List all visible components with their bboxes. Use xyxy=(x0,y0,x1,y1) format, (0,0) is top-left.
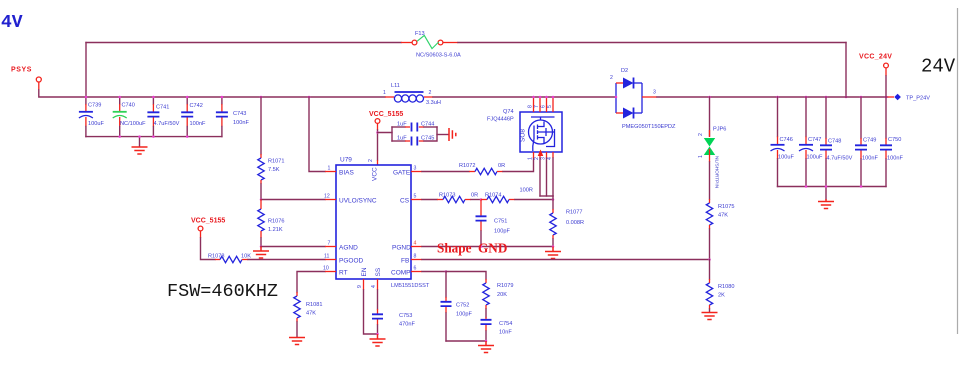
Q74 body diode arrow xyxy=(538,150,544,157)
svg-text:100nF: 100nF xyxy=(887,156,903,162)
ground C753 xyxy=(370,334,386,346)
net VCC_24V port circle xyxy=(884,63,889,68)
svg-text:1: 1 xyxy=(528,157,534,160)
wire R1080 to ground xyxy=(709,309,711,312)
svg-text:6: 6 xyxy=(541,105,547,108)
junction C740 bottom xyxy=(118,135,121,138)
transistor Q74 body xyxy=(520,112,563,152)
pin 12 stub xyxy=(325,199,336,201)
resistor R1074 xyxy=(481,196,515,202)
wire output rail xyxy=(657,96,888,98)
Q74 drain stub d xyxy=(552,97,554,112)
wire UVLO node to pin12 xyxy=(261,199,325,201)
diode D2 xyxy=(616,78,642,119)
Q74 source stub a xyxy=(539,152,541,158)
svg-text:2: 2 xyxy=(698,133,704,136)
pin 7 stub xyxy=(325,246,336,248)
svg-text:C753: C753 xyxy=(399,313,412,319)
wire R1071 feed xyxy=(260,97,262,154)
wire C754 to bus xyxy=(485,331,487,341)
svg-text:7: 7 xyxy=(328,241,331,247)
svg-text:COMP: COMP xyxy=(391,270,411,277)
capacitor C745 xyxy=(405,137,424,146)
wire C753 to ground node xyxy=(377,325,379,334)
svg-text:C739: C739 xyxy=(88,103,101,109)
svg-text:C751: C751 xyxy=(494,219,507,225)
junction D2 anode xyxy=(615,96,618,99)
pin 6 stub xyxy=(411,271,422,273)
svg-text:C752: C752 xyxy=(456,303,469,309)
wire R1076 to AGND node xyxy=(260,238,262,247)
capacitor C742 xyxy=(181,97,193,137)
svg-text:BIAS: BIAS xyxy=(339,170,354,177)
testpoint TP_P24V xyxy=(894,94,901,101)
wire top rail right corner drop xyxy=(845,43,847,98)
bottom pin stub SS xyxy=(377,279,379,290)
capacitor C749 xyxy=(855,97,867,187)
junction PGND ground node xyxy=(552,245,555,248)
svg-text:AGND: AGND xyxy=(339,245,358,252)
wire R1079 to C754 xyxy=(485,309,487,317)
svg-text:NC/100uF: NC/100uF xyxy=(120,121,146,127)
wire input rail left xyxy=(86,96,385,98)
wire TP stub xyxy=(888,96,895,98)
junction C742 top xyxy=(186,96,189,99)
wire RT to R1081 xyxy=(297,272,325,293)
svg-text:L11: L11 xyxy=(391,83,400,89)
wire R1078 to pin11 xyxy=(248,259,325,261)
junction out bus c xyxy=(860,185,863,188)
svg-text:PGND: PGND xyxy=(392,245,411,252)
pin 1 stub xyxy=(325,171,336,173)
resistor R1080 xyxy=(706,279,712,309)
wire VCC_5155 stub (vcc) xyxy=(377,124,379,131)
junction rail-riser xyxy=(85,96,88,99)
fuse F13 xyxy=(412,35,443,48)
svg-text:4.7uF/50V: 4.7uF/50V xyxy=(154,121,180,127)
svg-text:R1081: R1081 xyxy=(306,302,322,308)
svg-text:470nF: 470nF xyxy=(399,322,415,328)
capacitor C751 xyxy=(476,200,487,247)
wire bypass loop top row xyxy=(392,126,405,128)
junction R1071 tap xyxy=(260,96,263,99)
svg-text:4V: 4V xyxy=(1,13,23,33)
wire comp bottom bus xyxy=(446,340,486,342)
svg-text:1: 1 xyxy=(383,90,386,96)
resistor R1075 xyxy=(706,199,712,229)
svg-text:2: 2 xyxy=(534,157,540,160)
svg-text:8: 8 xyxy=(414,254,417,260)
svg-text:FSW=460KHZ: FSW=460KHZ xyxy=(167,281,278,302)
svg-text:F13: F13 xyxy=(415,31,425,37)
svg-text:TP_P24V: TP_P24V xyxy=(906,96,930,102)
svg-text:SO8: SO8 xyxy=(520,129,527,142)
wire R1074 to sense node xyxy=(515,199,553,201)
junction Q74 drain d xyxy=(552,96,555,99)
wire left riser to top rail xyxy=(85,43,87,98)
svg-text:PSYS: PSYS xyxy=(11,67,32,74)
svg-text:UVLO/SYNC: UVLO/SYNC xyxy=(339,198,377,205)
wire R1073 to CS node xyxy=(471,199,481,201)
capacitor C743 xyxy=(216,97,228,137)
svg-text:C741: C741 xyxy=(156,105,169,111)
resistor R1072 xyxy=(469,168,503,174)
wire fuse left stub xyxy=(401,42,412,44)
svg-text:C750: C750 xyxy=(888,137,901,143)
svg-text:C748: C748 xyxy=(828,139,841,145)
wire AGND node to pin7 xyxy=(261,246,325,248)
svg-text:C749: C749 xyxy=(863,138,876,144)
wire bypass loop right vertical xyxy=(424,127,437,141)
capacitor C753 xyxy=(372,309,383,325)
wire FB node to R1080 xyxy=(709,260,711,280)
svg-text:C747: C747 xyxy=(808,137,821,143)
svg-text:24V: 24V xyxy=(921,56,956,78)
ground AGND xyxy=(253,247,269,259)
wire VCC_24V down to rail xyxy=(885,76,887,97)
wire COMP pin to node xyxy=(422,271,446,273)
svg-text:C740: C740 xyxy=(122,103,135,109)
svg-text:R1074: R1074 xyxy=(485,193,501,199)
resistor R1071 xyxy=(258,154,264,184)
wire input cap ground bus xyxy=(86,136,222,138)
pin 4 stub xyxy=(411,246,422,248)
ground comp network xyxy=(478,341,494,353)
sheet border right edge xyxy=(957,8,959,334)
svg-text:4: 4 xyxy=(371,285,377,288)
resistor R1079 xyxy=(483,279,489,309)
svg-text:NC/S0603-S-6.0A: NC/S0603-S-6.0A xyxy=(416,53,461,59)
svg-text:C754: C754 xyxy=(499,321,512,327)
svg-text:100uF: 100uF xyxy=(88,121,104,127)
wire Q74 source b down xyxy=(546,158,548,196)
junction source-R1074 node xyxy=(552,198,555,201)
svg-text:7: 7 xyxy=(534,105,540,108)
svg-text:PJP6: PJP6 xyxy=(713,127,726,133)
wire branch to bypass loop xyxy=(378,132,393,134)
svg-text:C746: C746 xyxy=(780,137,793,143)
wire output gnd drop xyxy=(825,187,827,200)
svg-text:CS: CS xyxy=(400,198,410,205)
svg-text:0.008R: 0.008R xyxy=(566,220,584,226)
capacitor C752 xyxy=(441,272,452,342)
ground sideways CT44/C745 xyxy=(449,128,456,141)
svg-text:Shape GND: Shape GND xyxy=(437,241,507,256)
svg-text:FB: FB xyxy=(401,258,409,265)
svg-text:PGOOD: PGOOD xyxy=(339,258,364,265)
svg-text:47K: 47K xyxy=(306,311,316,317)
junction BIAS tap xyxy=(308,96,311,99)
svg-text:4: 4 xyxy=(547,157,553,160)
wire loop to side ground xyxy=(437,134,448,136)
resistor R1078 xyxy=(215,256,248,262)
junction gnd drop xyxy=(138,135,141,138)
wire Q74 source c down xyxy=(552,158,554,196)
svg-text:R1077: R1077 xyxy=(566,210,582,216)
ground input bus xyxy=(132,147,148,154)
wire bypass loop top right xyxy=(424,126,437,128)
wire EN pin down xyxy=(364,290,378,334)
wire R1077 to PGND node xyxy=(552,239,554,247)
svg-text:100uF: 100uF xyxy=(807,155,823,161)
wire VCC_24V stub xyxy=(885,68,887,76)
wire SS pin to C753 xyxy=(377,290,379,309)
svg-text:LM51551DSST: LM51551DSST xyxy=(391,283,430,289)
wire VCC_5155 stub (pgood) xyxy=(200,231,202,238)
Q74 drain stub c xyxy=(546,97,548,112)
svg-text:R1073: R1073 xyxy=(439,193,455,199)
capacitor C747 xyxy=(799,97,813,187)
svg-text:8: 8 xyxy=(528,105,534,108)
junction FB node xyxy=(708,258,711,261)
svg-text:100nF: 100nF xyxy=(190,121,206,127)
svg-text:PMEG050T150EPDZ: PMEG050T150EPDZ xyxy=(622,124,676,130)
junction UVLO node xyxy=(260,198,263,201)
svg-text:2: 2 xyxy=(429,90,432,96)
svg-text:10: 10 xyxy=(323,266,329,272)
svg-text:100R: 100R xyxy=(520,188,533,194)
svg-text:5: 5 xyxy=(414,194,417,200)
svg-text:0R: 0R xyxy=(498,163,505,169)
junction out bus a xyxy=(805,185,808,188)
capacitor C750 xyxy=(880,97,892,187)
capacitor C748 xyxy=(820,97,832,187)
svg-text:R1079: R1079 xyxy=(497,283,513,289)
resistor R1081 xyxy=(294,292,300,322)
svg-text:RT: RT xyxy=(339,270,348,277)
svg-text:VCC: VCC xyxy=(372,167,379,181)
junction PJP6 tap xyxy=(708,96,711,99)
wire PGND pin to ground run xyxy=(422,246,553,248)
Q74 top pin numbers xyxy=(528,105,554,108)
junction C741 top xyxy=(152,96,155,99)
svg-text:1: 1 xyxy=(328,166,331,172)
jumper PJP6 xyxy=(704,130,715,162)
junction C749 tap xyxy=(860,96,863,99)
ground R1080 xyxy=(702,313,718,320)
junction C753 gnd xyxy=(376,333,379,336)
junction COMP node xyxy=(445,270,448,273)
svg-text:D2: D2 xyxy=(621,68,628,74)
inductor L11 xyxy=(385,92,433,102)
wire COMP node to R1079 branch xyxy=(446,272,486,280)
junction top rail corner xyxy=(845,96,848,99)
svg-text:7.5K: 7.5K xyxy=(268,167,280,173)
resistor R1073 xyxy=(437,196,471,202)
svg-text:6: 6 xyxy=(414,266,417,272)
junction C746 tap xyxy=(776,96,779,99)
svg-text:10nF: 10nF xyxy=(499,330,512,336)
svg-text:U79: U79 xyxy=(340,157,352,164)
Q74 gate stub xyxy=(533,152,535,158)
svg-text:2K: 2K xyxy=(718,293,725,299)
junction C743 top xyxy=(221,96,224,99)
svg-text:SS: SS xyxy=(375,267,382,276)
svg-text:1uF: 1uF xyxy=(397,136,407,142)
svg-text:NL/SHORTPIN: NL/SHORTPIN xyxy=(714,156,720,189)
wire source merge bus xyxy=(540,195,553,197)
svg-text:20K: 20K xyxy=(497,292,507,298)
pin 11 stub xyxy=(325,259,336,261)
Q74 drain stub b xyxy=(539,97,541,112)
svg-text:9: 9 xyxy=(357,285,363,288)
capacitor C739 xyxy=(79,97,93,137)
svg-text:Q74: Q74 xyxy=(503,109,514,115)
svg-text:C742: C742 xyxy=(190,103,203,109)
wire R1081 to ground xyxy=(296,322,298,337)
svg-text:47K: 47K xyxy=(718,213,728,219)
svg-text:100pF: 100pF xyxy=(456,312,472,318)
junction CS node xyxy=(480,198,483,201)
wire ground drop of input bus xyxy=(139,137,141,147)
svg-text:0R: 0R xyxy=(471,193,478,199)
ground PGND xyxy=(545,247,561,259)
junction AGND node xyxy=(260,245,263,248)
wire R1075 to FB node xyxy=(709,229,711,260)
Q74 source stub c xyxy=(552,152,554,158)
wire top bypass rail right of fuse xyxy=(458,42,846,44)
svg-text:R1075: R1075 xyxy=(718,204,734,210)
svg-text:VCC_5155: VCC_5155 xyxy=(369,111,403,118)
wire source node to R1077 xyxy=(552,196,554,209)
wire Q74 source a down xyxy=(539,158,541,196)
junction VCC branch xyxy=(376,131,379,134)
Q74 drain stub a xyxy=(533,97,535,112)
junction C750 tap xyxy=(885,96,888,99)
wire PSYS drop xyxy=(38,82,40,90)
svg-text:2: 2 xyxy=(610,75,613,81)
svg-text:C743: C743 xyxy=(233,111,246,117)
capacitor C744 xyxy=(405,123,424,132)
junction out bus b xyxy=(825,185,828,188)
pin 5 stub xyxy=(411,199,422,201)
wire PSYS to rail xyxy=(39,90,86,97)
wire CS pin to R1073 xyxy=(422,199,437,201)
pin 10 stub xyxy=(325,271,336,273)
svg-text:12: 12 xyxy=(324,194,330,200)
wire VCC_5155 to R1078 xyxy=(201,238,216,260)
junction Q74 drain c xyxy=(545,96,548,99)
svg-text:3: 3 xyxy=(541,157,547,160)
capacitor C746 xyxy=(771,97,785,187)
junction C751 bottom xyxy=(480,245,483,248)
pin 8 stub xyxy=(411,259,422,261)
svg-text:VCC_5155: VCC_5155 xyxy=(191,218,225,225)
svg-text:R1071: R1071 xyxy=(268,159,284,165)
junction C741 bottom xyxy=(152,135,155,138)
svg-text:5: 5 xyxy=(547,105,553,108)
svg-text:3.3uH: 3.3uH xyxy=(426,100,441,106)
Q74 bottom pin numbers xyxy=(528,157,554,160)
wire PJP6 to R1075 xyxy=(709,162,711,199)
svg-text:100nF: 100nF xyxy=(862,156,878,162)
wire BIAS feed xyxy=(309,97,325,172)
wire bypass loop left vertical xyxy=(391,127,393,141)
resistor R1077 xyxy=(550,209,556,239)
wire FB run xyxy=(422,259,710,261)
wire R1071 to UVLO node xyxy=(260,184,262,200)
wire bypass loop bottom row xyxy=(392,140,405,142)
svg-text:10K: 10K xyxy=(241,254,251,260)
svg-text:100nF: 100nF xyxy=(233,120,249,126)
svg-text:1uF: 1uF xyxy=(397,122,407,128)
svg-text:100pF: 100pF xyxy=(494,229,510,235)
net VCC_5155 port circle (vcc) xyxy=(375,119,380,124)
net VCC_5155 port circle (pgood) xyxy=(198,226,203,231)
ground R1081 xyxy=(289,338,305,345)
Q74 source stub b xyxy=(546,152,548,158)
wire GATE pin to R1072 xyxy=(422,171,469,173)
ground output bus xyxy=(818,199,834,209)
svg-text:1: 1 xyxy=(698,155,704,158)
svg-text:4.7uF/50V: 4.7uF/50V xyxy=(827,156,853,162)
wire PJP6 feed xyxy=(709,97,711,136)
junction Q74 drain a xyxy=(532,96,535,99)
svg-text:2: 2 xyxy=(368,159,374,162)
svg-text:GATE: GATE xyxy=(393,170,411,177)
capacitor C740 (NC, green) xyxy=(113,97,127,137)
resistor R1076 xyxy=(258,200,264,239)
pin 3 stub xyxy=(411,171,422,173)
svg-text:1.21K: 1.21K xyxy=(268,227,283,233)
net PSYS port circle xyxy=(36,77,41,82)
svg-text:3: 3 xyxy=(653,90,656,96)
junction C742 bottom xyxy=(186,135,189,138)
wire fuse right stub xyxy=(443,42,458,44)
junction C740 top xyxy=(118,96,121,99)
wire D2 cathode stub xyxy=(642,96,657,98)
junction comp gnd xyxy=(485,340,488,343)
wire VCC pin stub xyxy=(377,160,379,165)
wire VCC_5155 down to VCC pin xyxy=(377,130,379,160)
junction C748 tap xyxy=(825,96,828,99)
svg-text:R1080: R1080 xyxy=(718,284,734,290)
svg-text:3: 3 xyxy=(414,166,417,172)
wire R1072 to Q74 gate xyxy=(503,158,534,172)
junction Q74 drain b xyxy=(539,96,542,99)
wire switch-node rail xyxy=(433,96,616,98)
op-amp U1 : IC U79 body xyxy=(336,165,411,279)
svg-text:100uF: 100uF xyxy=(778,155,794,161)
junction C747 tap xyxy=(805,96,808,99)
svg-text:FJQ4446P: FJQ4446P xyxy=(487,117,514,123)
bottom pin stub EN xyxy=(363,279,365,290)
svg-text:R1072: R1072 xyxy=(459,163,475,169)
svg-text:R1076: R1076 xyxy=(268,219,284,225)
svg-text:EN: EN xyxy=(361,267,368,276)
capacitor C741 xyxy=(147,97,159,137)
wire top bypass rail left of fuse xyxy=(86,42,401,44)
svg-text:VCC_24V: VCC_24V xyxy=(859,54,892,61)
svg-text:R1078: R1078 xyxy=(208,254,224,260)
wire output cap ground bus xyxy=(778,186,887,188)
capacitor C754 xyxy=(481,317,492,331)
svg-text:4: 4 xyxy=(414,241,417,247)
svg-text:11: 11 xyxy=(324,254,329,260)
